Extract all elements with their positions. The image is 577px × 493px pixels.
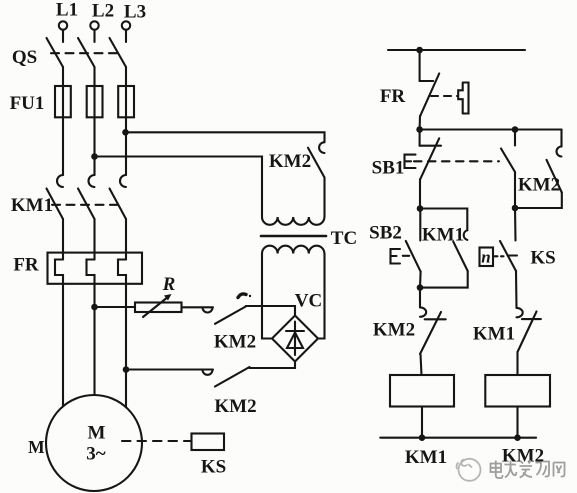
wire node to resistor R <box>95 306 136 308</box>
node top line <box>416 47 423 54</box>
node under FR <box>416 126 423 133</box>
wire L1 terminal tail <box>62 30 64 42</box>
node on L2 to TC primary left <box>91 153 98 160</box>
svg-text:KM2: KM2 <box>373 320 415 341</box>
thermal relay FR box <box>48 253 143 284</box>
node on L3 to control transformer line <box>122 129 129 136</box>
contact FR (NC) bar <box>420 80 434 82</box>
svg-text:M: M <box>88 423 106 444</box>
motor dashed link to KS <box>122 440 192 442</box>
contact KM2 (upper braking) arrow mark <box>238 294 246 298</box>
contactor KM1 linkage dashed <box>52 204 118 206</box>
contactor KM1 pole 3 blade <box>110 189 127 220</box>
wire KM2 blade to rectifier top <box>246 306 295 316</box>
pushbutton SB2 actuator E <box>391 249 401 264</box>
resistor R <box>135 303 182 313</box>
wire resistor to KM2 contact <box>182 306 214 308</box>
contactor KM1 pole 2 blade <box>78 189 95 220</box>
wire KM1 aux to lower node <box>420 271 468 288</box>
wire node line to right branch <box>420 128 562 130</box>
switch QS pole 2 blade <box>78 38 95 67</box>
svg-text:KM2: KM2 <box>269 151 311 172</box>
wire KM2 self-hold to node B <box>515 193 562 209</box>
svg-text:R: R <box>162 274 176 295</box>
contact KM2 self-hold fixed arc <box>557 147 562 157</box>
FR heater element 3 <box>118 260 126 284</box>
fuse FU1 pole 3 <box>118 86 134 117</box>
svg-text:FU1: FU1 <box>10 93 45 114</box>
pushbutton SB1-NO contact stub <box>514 130 516 146</box>
svg-text:KM1: KM1 <box>11 195 53 216</box>
contact KM2 self-hold blade <box>547 160 562 193</box>
svg-text:KM2: KM2 <box>214 332 256 353</box>
speed switch KS blade <box>500 241 516 271</box>
wire coil KM2 to rail <box>516 407 518 438</box>
wire L2 QS to fuse <box>93 67 95 175</box>
wire L1 FR to motor <box>62 284 64 409</box>
wire L2 terminal tail <box>93 30 95 42</box>
transformer TC core <box>261 235 326 238</box>
svg-text:SB2: SB2 <box>369 223 402 244</box>
contact KM2 self-hold stub <box>560 130 562 147</box>
terminal L3 <box>122 21 130 29</box>
svg-text:KM2: KM2 <box>214 396 256 417</box>
svg-text:KM1: KM1 <box>473 324 515 345</box>
terminal L2 <box>90 21 98 29</box>
pushbutton SB1 actuator E <box>405 155 416 168</box>
wire node A to KM1 aux branch <box>420 209 467 231</box>
wire L3 FR to motor <box>125 284 127 409</box>
contact FR dashes to detector <box>431 95 458 97</box>
speed switch KS bar <box>508 254 518 256</box>
svg-text:FR: FR <box>13 255 39 276</box>
contact KM2 interlock bar <box>425 318 446 320</box>
control: top supply line <box>388 49 525 51</box>
pushbutton SB1 (NC) upper stub and bar <box>419 130 421 146</box>
wire L1 KM1 to FR <box>62 219 64 260</box>
switch QS pole 1 blade <box>47 38 64 67</box>
contact FR thermal detector symbol <box>458 83 468 114</box>
resistor R adjust arrow <box>143 297 169 318</box>
contact KM1 interlock blade <box>518 312 537 353</box>
contact KM1 aux blade <box>453 242 467 271</box>
contact KM2 at TC blade <box>308 148 325 178</box>
wire L1 QS to fuse <box>62 67 64 175</box>
wire L2 FR to motor <box>93 284 95 396</box>
switch QS linkage dashed <box>51 52 119 54</box>
svg-text:SB1: SB1 <box>372 158 405 179</box>
wire L2 node to TC primary left <box>95 157 263 218</box>
wire node B to KS contact <box>514 208 517 241</box>
node B <box>512 205 519 212</box>
contact FR (NC) blade <box>420 74 439 116</box>
node SB1-NO branch <box>512 126 519 133</box>
coil KM1 <box>390 375 454 407</box>
svg-text:KS: KS <box>530 248 555 269</box>
svg-text:QS: QS <box>12 47 37 68</box>
pushbutton SB1-NO blade <box>501 149 515 173</box>
contact KM1 interlock bar <box>522 318 541 320</box>
svg-text:L1: L1 <box>56 0 78 21</box>
switch QS pole 3 blade <box>110 38 127 67</box>
FR heater element 1 <box>55 260 63 284</box>
rectifier VC diode <box>294 322 296 356</box>
node rail KM2 <box>514 434 521 441</box>
wire L3 KM1 to FR <box>125 219 127 260</box>
wire to coil KM1 <box>421 354 422 375</box>
contactor KM1 pole 2 fixed contact arc <box>89 175 95 187</box>
svg-text:KM2: KM2 <box>518 175 560 196</box>
wire SB1 to node A <box>419 179 421 208</box>
speed relay KS body <box>192 434 225 451</box>
contact KM2 (lower braking) fixed arc <box>203 370 213 375</box>
pushbutton SB2 blade <box>406 241 421 272</box>
wire L3 node to TC primary right <box>126 132 325 142</box>
contact KM2 (lower braking) blade <box>215 367 250 387</box>
wire KS to KM1 NC <box>515 271 518 308</box>
pushbutton SB2 stub <box>419 209 421 241</box>
contact KM2 interlock fixed arc <box>420 307 426 316</box>
wire SB2 to lower node <box>419 272 422 288</box>
node A <box>417 205 424 212</box>
svg-text:n: n <box>481 248 490 267</box>
wire to FR contact <box>419 50 421 81</box>
svg-text:FR: FR <box>380 86 406 107</box>
contactor KM1 pole 1 fixed contact arc <box>57 175 63 187</box>
wire node C to KM2 NC <box>419 288 421 308</box>
contact KM2 at TC fixed arc <box>319 142 324 153</box>
motor M circle <box>46 395 142 491</box>
rectifier VC diamond <box>272 316 318 362</box>
terminal L1 <box>59 21 67 29</box>
transformer TC secondary winding <box>262 246 324 254</box>
svg-text:M: M <box>28 437 45 457</box>
svg-text:L3: L3 <box>124 2 146 23</box>
wire KM2 blade to rectifier bottom <box>250 362 296 369</box>
control bottom rail <box>380 437 536 439</box>
wire L3 terminal tail <box>125 30 127 42</box>
wire L2 KM1 to FR <box>93 219 95 260</box>
svg-text:3~: 3~ <box>86 444 106 465</box>
svg-text:TC: TC <box>331 228 357 249</box>
contact KM2 (upper braking) fixed arc <box>203 308 213 313</box>
wire FR contact to node <box>419 116 421 130</box>
wire TC secondary right to rectifier <box>318 254 325 339</box>
fuse FU1 pole 1 <box>55 86 71 117</box>
contactor KM1 pole 3 fixed contact arc <box>120 175 126 187</box>
FR heater element 2 <box>87 260 95 284</box>
node rail KM1 <box>419 434 426 441</box>
wire SB1-NO to node B <box>514 172 516 208</box>
speed relay n box <box>480 248 494 267</box>
svg-text:VC: VC <box>295 291 322 312</box>
contact KM1 aux fixed arc <box>464 230 468 240</box>
wire coil KM1 to rail <box>421 407 423 438</box>
node on L2 to braking resistor <box>91 304 98 311</box>
svg-text:L2: L2 <box>92 1 114 22</box>
wire TC secondary left to rectifier <box>262 254 272 339</box>
node C <box>417 284 424 291</box>
transformer TC primary winding <box>262 217 324 225</box>
contact KM2 interlock blade <box>420 312 441 354</box>
SB1 linkage dashed to SB1-NO <box>414 160 499 162</box>
contact KM2 (upper braking) blade <box>215 307 246 324</box>
watermark logo <box>457 459 481 481</box>
coil KM2 <box>485 375 550 407</box>
wire L3 QS to fuse <box>125 67 127 175</box>
fuse FU1 pole 2 <box>87 86 103 117</box>
node on L3 to lower braking contact <box>123 366 130 373</box>
contactor KM1 pole 1 blade <box>47 189 64 220</box>
svg-text:KM1: KM1 <box>422 225 464 246</box>
wire TC primary right lead <box>323 178 325 218</box>
watermark text 电力学习网 <box>491 461 565 479</box>
wire to coil KM2 <box>516 352 518 375</box>
wire node to KM2 lower contact <box>126 368 213 370</box>
pushbutton SB1 (NC) blade <box>420 138 439 179</box>
KS dashes <box>493 255 504 257</box>
svg-text:KM1: KM1 <box>405 447 447 468</box>
contact KM1 interlock fixed arc <box>517 308 523 317</box>
svg-text:KS: KS <box>201 457 226 478</box>
SB2 dash <box>403 255 409 257</box>
